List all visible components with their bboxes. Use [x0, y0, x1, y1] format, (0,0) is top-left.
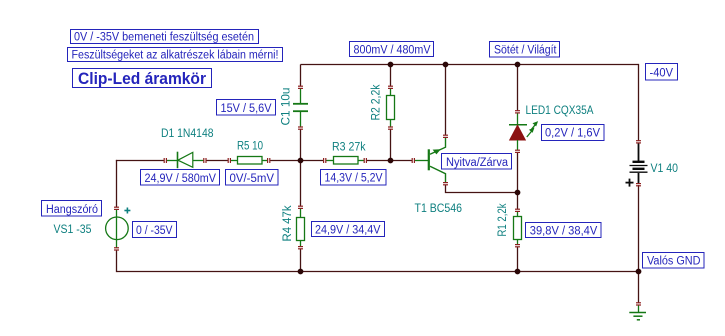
junction node bottom R1: [515, 269, 521, 275]
node label box: 0,2V / 1,6V: [542, 125, 605, 141]
ground: [629, 306, 646, 320]
R5 label: [237, 141, 263, 153]
svg-text:VS1 -35: VS1 -35: [54, 224, 92, 236]
node label box: Hangszoro: [42, 201, 102, 217]
node label box: 24,9V / 580mV: [141, 170, 220, 186]
wire collector branch: [445, 65, 447, 136]
wire R4 branch upper: [300, 161, 302, 207]
svg-text:24,9V / 34,4V: 24,9V / 34,4V: [315, 225, 381, 237]
node label box: 15V / 5,6V: [217, 100, 276, 116]
wire right rail (battery branch upper): [638, 64, 640, 141]
source VS1 plus sign: [124, 208, 130, 214]
wire bottom rail: [117, 271, 639, 273]
svg-text:0V / -35V bemeneti feszültség: 0V / -35V bemeneti feszültség esetén: [74, 32, 254, 44]
wire top rail: [301, 64, 639, 66]
svg-text:15V / 5,6V: 15V / 5,6V: [221, 103, 272, 115]
junction node bottom R4: [298, 269, 304, 275]
resistor R1: [514, 211, 522, 245]
wire LED branch upper: [517, 65, 519, 111]
LED1 light arrows: [527, 121, 538, 137]
resistor R5: [230, 157, 268, 165]
svg-text:Clip-Led áramkör: Clip-Led áramkör: [78, 70, 207, 88]
wire LED branch lower: [517, 153, 519, 193]
battery V1: [630, 143, 648, 183]
resistor R3: [326, 157, 365, 165]
svg-text:D1 1N4148: D1 1N4148: [161, 128, 214, 140]
node label box: Sotet / Vilagit: [490, 42, 560, 58]
resistor R2: [387, 88, 395, 128]
source VS1: [106, 209, 129, 248]
wire C1 branch lower: [300, 130, 302, 161]
wire right rail (battery branch lower): [638, 185, 640, 272]
svg-text:Sötét / Világít: Sötét / Világít: [494, 45, 557, 57]
node label box: -40V: [646, 64, 678, 81]
transistor Q1/T1 BC546: [428, 137, 446, 183]
wire middle rail segment 3: [270, 160, 324, 162]
svg-text:R3 27k: R3 27k: [332, 142, 366, 154]
svg-text:800mV / 480mV: 800mV / 480mV: [354, 45, 431, 57]
node label box: Nyitva/Zarva: [442, 154, 512, 170]
LED1 terminal ticks: [515, 111, 520, 153]
V1 label: [651, 163, 679, 175]
wire left rail upper: [116, 160, 118, 207]
svg-text:14,3V / 5,2V: 14,3V / 5,2V: [325, 173, 383, 185]
svg-text:24,9V / 580mV: 24,9V / 580mV: [145, 173, 217, 185]
svg-text:-40V: -40V: [650, 68, 674, 80]
wire R1 branch upper: [517, 193, 519, 210]
svg-text:R5 10: R5 10: [237, 141, 263, 153]
wire transistor base segment: [415, 160, 429, 162]
svg-text:0,2V / 1,6V: 0,2V / 1,6V: [545, 128, 600, 140]
svg-text:V1 40: V1 40: [651, 163, 679, 175]
node label box: 0 / -35V: [133, 222, 177, 238]
diode D1: [166, 152, 204, 169]
LED1: [509, 113, 527, 150]
svg-text:R1 2,2k: R1 2,2k: [497, 203, 509, 236]
wire R1 branch lower: [517, 247, 519, 272]
wire left rail lower: [116, 250, 118, 272]
wire ground stub: [638, 272, 640, 303]
title box: Clip-Led aramkor: [73, 69, 212, 89]
resistor R4 terminal ticks: [298, 206, 303, 249]
diode D1 terminal ticks: [164, 158, 206, 163]
capacitor C1: [293, 88, 308, 128]
node label box: 0V/-5mV: [226, 170, 279, 186]
D1 label: [161, 128, 214, 140]
node label box: 14,3V / 5,2V: [321, 170, 387, 186]
source VS1 terminal ticks: [114, 207, 119, 250]
svg-text:Nyitva/Zárva: Nyitva/Zárva: [446, 157, 509, 169]
node label box: 800mV / 480mV: [350, 42, 434, 57]
junction node emitter/LED/R1: [515, 190, 521, 196]
svg-text:Hangszóró: Hangszóró: [46, 204, 98, 216]
R2 label (rotated): [371, 84, 383, 120]
svg-text:R4 47k: R4 47k: [282, 205, 294, 241]
R4 label (rotated): [282, 205, 294, 241]
junction node top R2: [388, 62, 394, 68]
svg-text:LED1 CQX35A: LED1 CQX35A: [526, 105, 594, 117]
battery V1 terminal ticks: [636, 141, 641, 186]
wire emitter branch: [446, 185, 518, 193]
svg-text:0V/-5mV: 0V/-5mV: [230, 173, 275, 185]
node label box: Valos GND: [643, 253, 705, 269]
ground terminal tick: [636, 303, 641, 305]
battery V1 plus sign: [626, 179, 634, 187]
svg-text:39,8V / 38,4V: 39,8V / 38,4V: [530, 225, 598, 237]
R3 label: [332, 142, 366, 154]
svg-text:R2 2,2k: R2 2,2k: [371, 84, 383, 120]
capacitor C1 terminal ticks: [298, 86, 303, 129]
junction node middle R2/R3/base: [388, 158, 394, 164]
R1 label (rotated): [497, 203, 509, 236]
svg-text:0 / -35V: 0 / -35V: [136, 225, 173, 237]
svg-text:Valós GND: Valós GND: [647, 256, 701, 268]
C1 label (rotated): [281, 88, 293, 126]
VS1 label: [54, 224, 92, 236]
junction node middle C1/R4: [298, 158, 304, 164]
wire middle rail segment 2: [206, 160, 228, 162]
note box: measure at component pins: [68, 48, 283, 62]
svg-text:C1 10u: C1 10u: [281, 88, 293, 126]
junction node top LED: [515, 62, 521, 68]
resistor R3 terminal ticks: [324, 158, 367, 163]
wire R2 branch lower: [390, 130, 392, 161]
node label box: 24,9V / 34,4V: [312, 222, 385, 237]
wire R4 branch lower: [300, 249, 302, 272]
junction node bottom right: [636, 269, 642, 275]
note box: input voltage condition: [71, 30, 259, 44]
resistor R1 terminal ticks: [515, 209, 520, 247]
wire middle rail segment 4: [367, 160, 413, 162]
wire R2 branch upper: [390, 65, 392, 87]
wire middle rail segment 1: [116, 160, 164, 162]
resistor R4: [297, 208, 305, 247]
wire C1 branch upper: [300, 65, 302, 87]
T1 label: [415, 203, 463, 215]
resistor R5 terminal ticks: [228, 158, 270, 163]
LED1 label: [526, 105, 594, 117]
svg-text:Feszültségeket az alkatrészek: Feszültségeket az alkatrészek lábain mér…: [72, 50, 279, 62]
junction node top collector: [443, 62, 449, 68]
node label box: 39,8V / 38,4V: [526, 223, 602, 238]
transistor T1 terminal ticks: [412, 135, 448, 185]
resistor R2 terminal ticks: [388, 86, 393, 129]
svg-text:T1 BC546: T1 BC546: [415, 203, 463, 215]
